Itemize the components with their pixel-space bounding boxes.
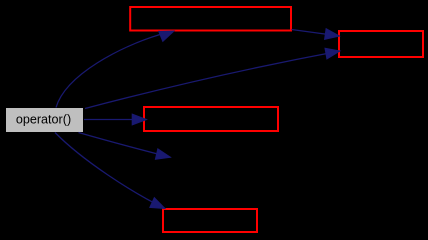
node right box — [339, 31, 423, 57]
edge operator() to hidden node — [79, 133, 171, 158]
node middle box — [144, 107, 278, 131]
node operator() — [6, 108, 83, 132]
edge operator() to right box — [85, 51, 340, 109]
node top box — [130, 7, 291, 31]
node bottom box — [163, 209, 257, 232]
edge operator() to top box — [56, 35, 160, 108]
svg-text:operator(): operator() — [16, 113, 71, 127]
edge operator() to middle box — [84, 119, 147, 121]
edge top box to right box — [292, 30, 340, 37]
edge operator() to bottom box — [55, 133, 165, 209]
